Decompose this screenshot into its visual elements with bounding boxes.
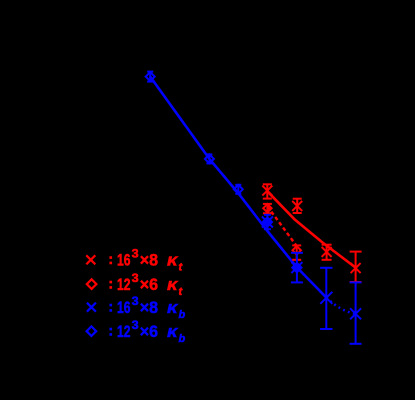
red open diamond point 1 with error bar <box>263 204 272 213</box>
blue x point 4 with long error bar <box>350 282 362 343</box>
svg-text::: : <box>108 276 113 293</box>
red x point 4 with error bar <box>350 252 362 282</box>
svg-text:12: 12 <box>117 275 131 294</box>
legend row 2: red diamond 12^3x6 kappa_t <box>87 279 97 289</box>
svg-text:12: 12 <box>117 322 131 341</box>
svg-text:×6: ×6 <box>140 323 158 341</box>
svg-text:κ: κ <box>167 298 179 317</box>
svg-text:×8: ×8 <box>140 252 158 270</box>
svg-text:κ: κ <box>167 322 179 341</box>
red open diamond point 2 with error bar <box>292 245 301 259</box>
svg-text:×8: ×8 <box>140 299 158 317</box>
svg-text:×6: ×6 <box>140 276 158 294</box>
svg-text:b: b <box>179 333 186 345</box>
red solid fit line (kappa_t 16^3x8) <box>267 191 355 267</box>
blue overlapped x+diamond point (267.4,222) with error bar <box>262 215 273 229</box>
svg-text::: : <box>108 299 113 316</box>
legend row 1: red x 16^3x8 kappa_t <box>86 255 95 264</box>
svg-text::: : <box>108 251 113 268</box>
red x point 1 with error bar <box>262 184 272 198</box>
blue diamond point 2 <box>205 154 214 163</box>
svg-text:3: 3 <box>132 249 139 261</box>
red dashed fit line (kappa_t 12^3x6) <box>267 206 297 246</box>
blue solid fit line (kappa_b) <box>150 77 326 298</box>
svg-text:3: 3 <box>132 320 139 332</box>
red x point 3 with error bar <box>322 245 332 260</box>
svg-text::: : <box>108 323 113 340</box>
svg-text:b: b <box>179 309 186 321</box>
svg-text:3: 3 <box>132 296 139 308</box>
legend row 3: blue x 16^3x8 kappa_b <box>87 303 96 312</box>
svg-text:κ: κ <box>167 251 179 270</box>
blue overlapped x+diamond point (296.9,267.6) with error bar <box>291 253 303 283</box>
blue x point 3 with long error bar <box>320 268 332 329</box>
svg-text:16: 16 <box>117 251 131 270</box>
svg-text:16: 16 <box>117 298 131 317</box>
blue dotted continuation to last point <box>326 298 355 314</box>
legend row 4: blue diamond 12^3x6 kappa_b <box>87 326 97 336</box>
blue diamond point 1 with small error bar <box>146 72 155 82</box>
blue diamond point 3 <box>234 185 243 194</box>
svg-text:3: 3 <box>132 273 139 285</box>
svg-text:κ: κ <box>167 275 179 294</box>
red x point 2 with error bar <box>292 199 302 213</box>
